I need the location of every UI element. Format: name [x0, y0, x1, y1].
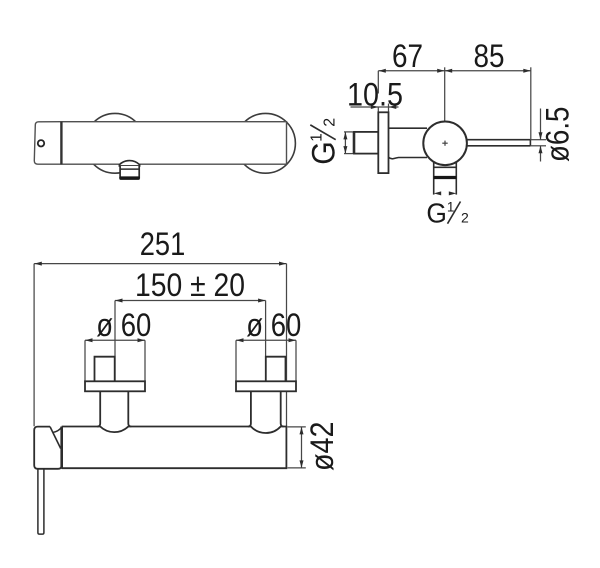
G1/2 outlet label — [426, 198, 469, 229]
wall plate (side view) — [378, 112, 388, 173]
body bar (top view) — [61, 122, 286, 165]
svg-text:67: 67 — [392, 38, 423, 74]
dia 6.5 dimension — [530, 109, 546, 162]
svg-text:10.5: 10.5 — [347, 77, 403, 113]
lever (side view) — [466, 140, 530, 146]
outlet aerator body (top view) — [120, 166, 139, 178]
dimension dia42 — [288, 427, 306, 468]
svg-text:1: 1 — [447, 199, 455, 214]
body bar (front) with intersection dips — [62, 427, 287, 469]
pipe right (front) — [248, 391, 284, 426]
svg-text:1: 1 — [309, 133, 326, 142]
svg-text:G: G — [305, 141, 341, 165]
outlet spout chin line (top view) — [119, 165, 139, 167]
handle cap (front) — [34, 427, 62, 469]
rotated G1/2 label (left) — [305, 118, 341, 165]
outlet stub dark thread band — [434, 176, 457, 179]
svg-text:85: 85 — [474, 38, 505, 74]
escutcheon left (front) — [85, 381, 145, 391]
outlet spout dome (top view) — [119, 161, 139, 166]
outlet aerator joint line (top view) — [120, 168, 139, 170]
handle cap (top view) — [34, 122, 61, 165]
inlet pipe stub — [354, 132, 378, 154]
dimension 67/85 line — [378, 67, 531, 139]
union nut left — [95, 357, 115, 382]
extension line lever end — [530, 67, 532, 139]
connector top line — [389, 127, 428, 129]
outlet aerator dark ring (top view) — [119, 176, 140, 180]
handle dot — [38, 140, 44, 146]
svg-text:ø6.5: ø6.5 — [540, 107, 576, 163]
escutcheon circle right (top view) — [236, 113, 296, 173]
arrowheads 67/85 — [378, 69, 531, 73]
dimension dia60 right — [236, 340, 296, 381]
dimension 251 — [34, 264, 286, 427]
svg-text:150 ± 20: 150 ± 20 — [135, 267, 245, 303]
handle lever diagonal — [50, 427, 61, 449]
G1/2 outlet dimension arrows (bottom) — [434, 191, 457, 195]
svg-text:ø 60: ø 60 — [246, 307, 301, 343]
svg-text:251: 251 — [140, 226, 186, 262]
handle rod (front) — [38, 469, 44, 534]
pipe left (front) — [97, 391, 131, 426]
dimension 150 — [115, 301, 266, 388]
connector bottom line with squiggle — [389, 157, 428, 159]
union nut right — [266, 357, 286, 382]
handle lever fillet arc — [53, 427, 62, 432]
rotated dia42 label — [304, 422, 340, 472]
mixer body circle (side view) — [423, 122, 467, 166]
joint line (top view) — [60, 122, 62, 165]
dimension dia60 left — [85, 340, 145, 381]
svg-text:ø42: ø42 — [304, 422, 340, 472]
centre mark — [442, 141, 447, 146]
svg-text:G: G — [426, 198, 447, 229]
extension line wall — [377, 71, 379, 94]
joint line (front) — [60, 427, 63, 469]
svg-text:2: 2 — [321, 118, 338, 127]
rotated dia 6.5 label — [540, 107, 576, 163]
G1/2 inlet dimension arrows (left) — [344, 132, 354, 154]
dimension 10.5 — [351, 104, 399, 113]
escutcheon right (front) — [236, 381, 296, 391]
extension line body centre — [444, 67, 446, 139]
escutcheon circle left (top view) — [85, 113, 145, 173]
svg-text:ø 60: ø 60 — [96, 307, 151, 343]
svg-text:2: 2 — [461, 210, 469, 226]
outlet stub (side view) — [434, 158, 457, 195]
